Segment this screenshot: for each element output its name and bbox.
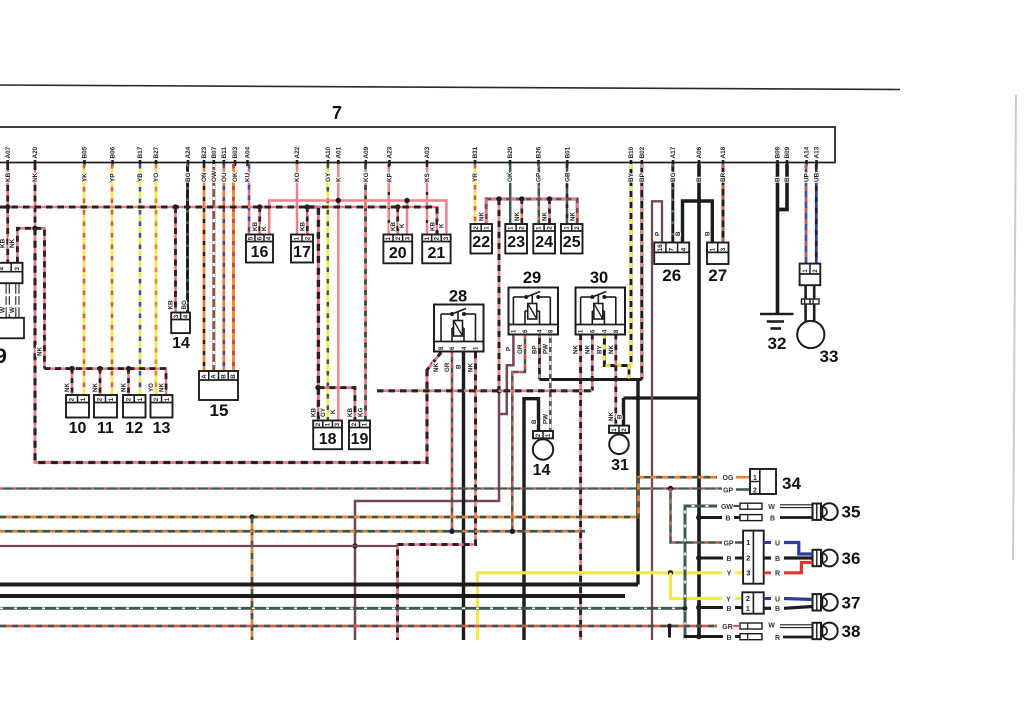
svg-text:B: B: [696, 177, 703, 182]
ground 32: [760, 314, 794, 329]
wire B branch 38: [684, 635, 723, 638]
pin tick B10: [630, 160, 633, 166]
svg-text:KB: KB: [168, 300, 175, 309]
junction y531 dot 29: [510, 529, 515, 534]
wire R 36: [764, 571, 771, 574]
junction NK at 11: [97, 366, 102, 371]
wire KB to 16 pin6: [258, 207, 261, 235]
wire NK bus 10-13: [45, 369, 167, 395]
svg-text:BP: BP: [639, 172, 646, 182]
svg-text:1: 1: [563, 226, 570, 230]
connector 18: [313, 421, 342, 450]
wire B branch 36: [699, 557, 723, 560]
wire U 36: [764, 541, 771, 544]
svg-text:B06: B06: [110, 146, 117, 158]
svg-text:12: 12: [125, 420, 143, 437]
wire NK A20 drop: [34, 164, 37, 228]
svg-text:YB: YB: [137, 173, 144, 182]
svg-text:1: 1: [508, 226, 515, 230]
connector 27: [707, 243, 729, 265]
svg-text:NK: NK: [37, 347, 44, 356]
svg-text:R: R: [775, 571, 780, 578]
pin tick A13: [815, 160, 818, 166]
svg-text:7: 7: [332, 103, 342, 123]
wire GW vertical: [685, 506, 717, 640]
svg-text:Y: Y: [726, 596, 731, 603]
svg-text:38: 38: [842, 622, 861, 641]
wire B bus y584.5: [0, 583, 638, 587]
wire B branch 37: [699, 606, 723, 609]
svg-text:KB: KB: [311, 408, 318, 417]
wire GP drop to 36: [671, 489, 723, 543]
svg-text:KO: KO: [294, 172, 301, 182]
junction NK bus at 14: [173, 204, 178, 209]
svg-text:9: 9: [0, 345, 7, 368]
svg-text:KB: KB: [429, 222, 436, 231]
svg-text:A14: A14: [804, 146, 811, 158]
wire GK B29 drop: [509, 164, 512, 224]
svg-text:1: 1: [137, 397, 144, 401]
wire W 35: [780, 505, 813, 508]
svg-text:17: 17: [293, 244, 311, 261]
svg-text:37: 37: [842, 593, 861, 612]
svg-text:KU: KU: [245, 172, 252, 182]
wire K A01 drop: [337, 164, 340, 421]
pin tick B23: [203, 160, 206, 166]
svg-text:BG: BG: [181, 300, 188, 309]
svg-text:GB: GB: [564, 172, 571, 182]
svg-text:YO: YO: [148, 383, 155, 392]
wire R 38 to bulb: [783, 636, 813, 639]
svg-text:B02: B02: [639, 146, 646, 158]
wire NK 28 pin8 diag: [427, 353, 441, 371]
bulb 37: [813, 594, 838, 611]
svg-text:K: K: [330, 409, 337, 414]
svg-text:KB: KB: [0, 238, 6, 248]
svg-text:B: B: [617, 414, 624, 419]
svg-text:NK: NK: [573, 345, 580, 354]
connector 23: [505, 224, 527, 254]
svg-text:W: W: [768, 623, 775, 630]
connector 26: [654, 243, 689, 265]
connector 14 top: [171, 313, 190, 334]
svg-text:Y: Y: [727, 571, 732, 578]
svg-text:1: 1: [294, 236, 301, 240]
relay 28: [434, 305, 484, 352]
svg-text:KG: KG: [363, 172, 370, 182]
svg-text:2: 2: [97, 397, 104, 401]
svg-text:NK: NK: [92, 383, 99, 392]
svg-text:W: W: [9, 306, 16, 313]
svg-text:3: 3: [14, 267, 21, 271]
junction KB 18 junction: [315, 385, 320, 390]
svg-text:GR: GR: [517, 344, 524, 354]
wire NK long drop upper: [498, 199, 501, 391]
wire GP bus y488.5: [0, 487, 722, 489]
bullet 38 B: [740, 634, 762, 640]
wire BY-BP link: [628, 366, 631, 380]
svg-text:B27: B27: [153, 146, 160, 158]
svg-text:U: U: [775, 540, 780, 547]
svg-text:B: B: [726, 635, 731, 642]
svg-text:NK: NK: [32, 172, 39, 182]
svg-text:K: K: [439, 223, 446, 228]
svg-text:10: 10: [69, 420, 87, 437]
junction B dot 37: [696, 605, 702, 611]
svg-text:4: 4: [680, 247, 687, 251]
wire NK bus y390.8 right: [377, 389, 592, 392]
pin tick A22: [296, 160, 299, 166]
wire PW 29 to 14: [549, 334, 552, 431]
svg-text:BG: BG: [185, 172, 192, 182]
svg-text:B: B: [675, 231, 682, 236]
svg-text:KS: KS: [424, 172, 431, 182]
wire B A06 drop long: [697, 164, 701, 637]
pin tick A17: [672, 160, 675, 166]
svg-text:A01: A01: [336, 146, 343, 158]
svg-text:B: B: [775, 606, 780, 613]
wire P 29 jog: [499, 334, 513, 414]
pin tick B17: [139, 160, 142, 166]
svg-text:1: 1: [611, 428, 618, 432]
svg-text:23: 23: [507, 234, 525, 251]
wire NK bus 22-25: [486, 199, 577, 224]
svg-text:BG: BG: [670, 172, 677, 182]
svg-text:NK: NK: [514, 212, 521, 221]
bulb 35: [813, 503, 838, 520]
svg-text:25: 25: [563, 234, 581, 251]
svg-text:K: K: [261, 226, 268, 231]
svg-text:NK: NK: [569, 212, 576, 221]
svg-text:P: P: [654, 232, 661, 236]
svg-text:11: 11: [97, 420, 114, 437]
wire KB A07 drop: [6, 164, 9, 207]
lamp 31: [609, 435, 629, 455]
wire GR 38 stub: [727, 625, 740, 627]
wire B net horizontal y398: [624, 396, 700, 399]
svg-text:KB: KB: [347, 408, 354, 417]
wire NK 28 pin1 drop: [398, 353, 476, 641]
svg-text:A22: A22: [294, 146, 301, 158]
wire BR A18 drop: [722, 164, 725, 243]
svg-text:2: 2: [753, 487, 757, 494]
svg-text:2: 2: [746, 554, 750, 563]
svg-text:A: A: [211, 374, 218, 379]
svg-text:OK: OK: [232, 172, 239, 182]
svg-text:B23: B23: [201, 146, 208, 158]
lamp 33: [797, 321, 824, 348]
svg-text:NK: NK: [608, 345, 615, 354]
junction NK at 23: [519, 196, 524, 201]
lamp 14: [533, 439, 553, 459]
junction y531 dot 28: [449, 529, 454, 534]
wire NK A20 to 28: [35, 228, 441, 462]
relay 30: [576, 288, 626, 335]
svg-text:32: 32: [768, 334, 787, 353]
svg-text:B: B: [775, 556, 780, 563]
wire YK B05 drop: [83, 164, 86, 395]
wire NK 30 pin6: [591, 334, 594, 391]
wire B 31 pin2: [622, 398, 625, 426]
svg-text:KB: KB: [5, 172, 12, 182]
wire YB B17 drop: [139, 164, 142, 395]
wire B 33 right2: [813, 304, 816, 322]
svg-text:B: B: [531, 419, 538, 424]
svg-text:28: 28: [449, 288, 467, 306]
wire KP A23 drop: [388, 164, 391, 235]
connector 19: [349, 421, 370, 450]
svg-text:B07: B07: [211, 146, 218, 158]
pin tick B01: [566, 160, 569, 166]
svg-text:B: B: [456, 364, 463, 369]
svg-text:NK: NK: [9, 238, 16, 248]
svg-text:KB: KB: [252, 222, 259, 231]
wire YP B06 drop: [111, 164, 114, 395]
wire OG bus y517: [0, 477, 717, 517]
wire B elbow 26-27: [683, 201, 713, 243]
svg-text:GY: GY: [325, 172, 332, 182]
wire KB to 9 pin4: [6, 207, 9, 263]
svg-text:14: 14: [172, 335, 190, 352]
connector 20: [383, 235, 412, 264]
connector 11: [94, 395, 117, 418]
svg-text:4: 4: [266, 236, 273, 240]
svg-text:1: 1: [545, 433, 552, 437]
wire B 33 left2: [804, 304, 807, 322]
svg-text:2: 2: [126, 397, 133, 401]
svg-text:3: 3: [173, 314, 180, 318]
pin tick A01: [337, 160, 340, 166]
wire YO B27 drop: [155, 164, 158, 395]
wire Y into 36: [735, 571, 743, 574]
svg-text:26: 26: [662, 266, 681, 285]
svg-text:B: B: [230, 374, 237, 379]
svg-text:B17: B17: [137, 146, 144, 158]
junction GW dot: [683, 606, 688, 611]
svg-text:2: 2: [153, 397, 160, 401]
svg-text:GR: GR: [722, 624, 733, 631]
wire KU A04 drop: [248, 164, 251, 235]
svg-text:BP: BP: [532, 345, 539, 354]
svg-text:A13: A13: [814, 146, 821, 158]
pin tick A07: [6, 160, 9, 166]
svg-text:B29: B29: [507, 146, 514, 158]
svg-text:B26: B26: [536, 146, 543, 158]
svg-text:UB: UB: [814, 172, 821, 182]
svg-text:A09: A09: [363, 146, 370, 158]
svg-text:GK: GK: [507, 172, 514, 182]
svg-text:A07: A07: [5, 146, 12, 158]
wire bus y531: [0, 530, 585, 533]
svg-text:4: 4: [182, 314, 189, 318]
wire B vertical x638: [636, 380, 639, 585]
svg-text:GR: GR: [444, 362, 451, 372]
junction GR dot: [667, 624, 672, 629]
wire NK long drop lower: [355, 391, 499, 640]
svg-text:A: A: [201, 374, 208, 379]
wire B 37 rb: [784, 607, 813, 609]
wire NK 11 pin2: [99, 369, 102, 395]
svg-text:33: 33: [820, 347, 839, 366]
svg-text:2: 2: [535, 433, 542, 437]
svg-text:2: 2: [621, 428, 628, 432]
svg-text:2: 2: [351, 422, 358, 426]
bullet 33 right: [810, 299, 819, 304]
svg-text:UP: UP: [804, 172, 811, 182]
svg-text:30: 30: [590, 269, 608, 287]
wire W 38: [780, 625, 813, 628]
svg-text:B: B: [726, 606, 731, 613]
wire U 37 b: [784, 599, 813, 600]
svg-text:B: B: [775, 177, 782, 182]
svg-text:OU: OU: [221, 172, 228, 182]
svg-text:20: 20: [389, 245, 407, 262]
wire K net horizontal: [269, 201, 446, 235]
svg-text:OW: OW: [211, 170, 218, 182]
connector 24: [533, 224, 555, 254]
svg-text:PW: PW: [543, 414, 550, 424]
pin tick A14: [805, 160, 808, 166]
pin tick A20: [34, 160, 37, 166]
svg-text:15: 15: [210, 401, 229, 420]
svg-text:K: K: [336, 177, 343, 182]
wire GP to 34: [736, 488, 750, 491]
pin tick B09: [786, 160, 789, 166]
junction NK bus at drop: [496, 196, 501, 201]
svg-text:KP: KP: [387, 172, 394, 182]
wire GR bus y626: [0, 625, 717, 628]
svg-text:B09: B09: [784, 146, 791, 158]
svg-text:NK: NK: [64, 383, 71, 392]
svg-text:B10: B10: [628, 146, 635, 158]
svg-text:R: R: [775, 635, 780, 642]
connector 16: [246, 235, 273, 263]
svg-text:OG: OG: [723, 475, 734, 482]
svg-text:A03: A03: [424, 146, 431, 158]
wire B 36 r: [764, 556, 771, 559]
svg-text:7: 7: [669, 247, 676, 251]
svg-text:18: 18: [319, 431, 337, 448]
svg-text:1: 1: [536, 226, 543, 230]
wire ON B23 drop: [203, 164, 206, 371]
junction NK 9 junction: [32, 226, 37, 231]
connector 15: [199, 371, 238, 400]
connector 9 lower box: [0, 318, 24, 339]
junction B dot 38: [696, 634, 702, 640]
svg-text:A18: A18: [720, 146, 727, 158]
svg-text:29: 29: [523, 269, 541, 287]
svg-text:B: B: [705, 231, 712, 236]
wire KG A09 drop: [364, 164, 367, 421]
connector 21: [422, 235, 450, 264]
bulb 36: [813, 550, 838, 567]
pin tick B07: [213, 160, 216, 166]
junction B dot x638: [635, 395, 641, 401]
wire OG into 34: [736, 476, 750, 479]
svg-text:NK: NK: [584, 345, 591, 354]
svg-text:GW: GW: [721, 504, 733, 511]
wire GW bus y608: [0, 607, 685, 610]
pin tick A10: [327, 160, 330, 166]
wire KB branch to 19: [318, 388, 355, 421]
wire KB elbow 17-18: [307, 207, 318, 421]
connector 31 lamp pins: [609, 426, 629, 433]
svg-text:NK: NK: [121, 383, 128, 392]
wire NK 12 pin2: [127, 369, 130, 395]
junction NK long at bus390: [496, 388, 501, 393]
pin tick A04: [246, 160, 249, 166]
wire OK B03 drop: [232, 164, 235, 371]
wire B B09 drop: [778, 164, 788, 210]
wire W 2 from 9: [15, 283, 20, 318]
bullet 35 GW: [740, 503, 762, 509]
svg-text:2: 2: [69, 397, 76, 401]
pin tick B26: [537, 160, 540, 166]
wire GY A10 drop: [326, 164, 329, 421]
pin tick B03: [234, 160, 237, 166]
svg-text:KG: KG: [358, 408, 365, 417]
svg-text:P: P: [505, 347, 512, 351]
svg-text:ON: ON: [201, 172, 208, 182]
wire BP B02 drop: [640, 164, 643, 380]
wire OW B07 drop: [212, 164, 215, 371]
svg-text:3: 3: [404, 236, 411, 240]
connector 25: [561, 224, 583, 254]
wire GR stub: [668, 626, 671, 638]
svg-text:B: B: [725, 515, 730, 522]
connector 10: [66, 395, 89, 418]
connector 9 pins: [0, 263, 23, 283]
svg-text:3: 3: [334, 422, 341, 426]
svg-text:1: 1: [746, 604, 750, 613]
svg-text:NK: NK: [479, 212, 486, 221]
svg-text:2: 2: [812, 269, 819, 273]
wire NK 10 pin2: [71, 369, 74, 395]
svg-text:16: 16: [657, 244, 664, 251]
wire BG A17 drop: [671, 164, 674, 243]
svg-text:PW: PW: [542, 344, 549, 354]
pin tick B05: [83, 160, 86, 166]
pin tick B02: [640, 160, 643, 166]
svg-text:B: B: [726, 556, 731, 563]
svg-text:2: 2: [574, 226, 581, 230]
connector 13: [151, 395, 173, 418]
junction NK at 10: [69, 366, 74, 371]
svg-text:6: 6: [257, 236, 264, 240]
pin tick B06: [111, 160, 114, 166]
wire NK 23 pin2: [521, 199, 524, 224]
svg-text:2: 2: [519, 226, 526, 230]
svg-text:YK: YK: [82, 173, 89, 182]
bulb 38: [813, 623, 838, 640]
wire U 37: [764, 597, 771, 600]
wire GR 29 drop: [512, 334, 525, 531]
junction K at 20: [404, 198, 409, 203]
wire GR 28 drop: [451, 353, 454, 532]
wire R 36 b: [784, 563, 813, 573]
svg-text:31: 31: [611, 457, 629, 474]
svg-text:A10: A10: [325, 146, 332, 158]
svg-text:1: 1: [424, 236, 431, 240]
svg-text:2: 2: [547, 226, 554, 230]
svg-text:4: 4: [0, 267, 6, 271]
svg-text:3: 3: [746, 568, 750, 577]
wire BY 30 jog: [604, 334, 631, 366]
wire B 36 rb: [784, 556, 813, 559]
svg-text:34: 34: [782, 474, 801, 493]
svg-text:B: B: [220, 374, 227, 379]
bullet 38 GR: [740, 623, 762, 629]
